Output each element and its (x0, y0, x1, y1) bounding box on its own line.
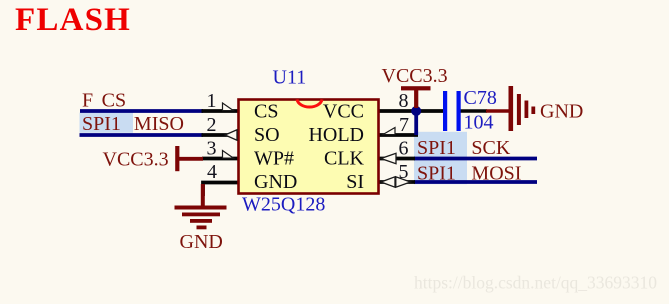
IC notch arc (297, 100, 322, 108)
svg-text:GND: GND (540, 101, 583, 123)
pin 5 bidirectional arrows (381, 177, 411, 187)
svg-text:8: 8 (399, 90, 409, 112)
svg-text:6: 6 (399, 138, 409, 160)
highlight box nets SPI1_SCK / SPI1_MOSI (414, 132, 467, 184)
pin 6 wire (378, 157, 415, 161)
pin 1 wire (202, 109, 239, 113)
wire VCC net vertical to pin 7 (414, 111, 418, 135)
svg-text:VCC: VCC (323, 101, 364, 123)
pin 6 input arrow (381, 153, 396, 163)
wire net SPI1_MOSI (414, 180, 537, 184)
pin 7 input arrow (383, 128, 395, 135)
svg-text:GND: GND (180, 231, 223, 253)
pin 2 wire (202, 133, 239, 137)
capacitor C78 plates (443, 91, 461, 131)
svg-text:HOLD: HOLD (308, 124, 364, 146)
svg-text:SPI1MISO: SPI1MISO (82, 113, 184, 135)
svg-text:CLK: CLK (324, 148, 365, 170)
svg-text:WP#: WP# (254, 148, 294, 170)
pin 8 wire to capacitor (378, 109, 444, 113)
svg-text:CS: CS (254, 101, 278, 123)
junction dot (411, 106, 421, 116)
svg-text:1: 1 (207, 90, 217, 112)
pin 1 input arrow (223, 103, 234, 111)
pin 2 output arrow (225, 130, 237, 140)
svg-text:2: 2 (207, 114, 217, 136)
svg-text:GND: GND (254, 171, 297, 193)
ground symbol (right of C78) (486, 86, 535, 131)
IC U11 body (239, 100, 379, 194)
svg-text:FLASH: FLASH (15, 2, 131, 38)
svg-text:https://blog.csdn.net/qq_33693: https://blog.csdn.net/qq_33693310 (414, 273, 657, 293)
svg-text:7: 7 (399, 114, 409, 136)
svg-text:SI: SI (346, 171, 364, 193)
svg-text:VCC3.3: VCC3.3 (103, 149, 169, 171)
wire capacitor to GND (460, 109, 487, 113)
highlight box net SPI1_MISO (80, 113, 134, 133)
svg-text:C78: C78 (464, 87, 497, 109)
pin 7 wire (378, 133, 418, 137)
wire net SPI1_MISO (80, 133, 204, 137)
svg-text:4: 4 (207, 161, 217, 183)
pin 5 wire (378, 180, 415, 184)
ground symbol (bottom) (175, 184, 227, 229)
svg-text:SO: SO (254, 124, 280, 146)
svg-text:W25Q128: W25Q128 (242, 194, 325, 216)
svg-text:VCC3.3: VCC3.3 (382, 65, 448, 87)
svg-text:104: 104 (464, 112, 494, 134)
power symbol VCC3.3 (left) (175, 146, 203, 171)
wire net SPI1_SCK (414, 157, 537, 161)
wire net F_CS (80, 109, 203, 113)
svg-text:FCS: FCS (82, 89, 126, 111)
power symbol VCC3.3 (top right) (401, 86, 431, 108)
pin 4 wire (203, 183, 238, 197)
svg-text:U11: U11 (273, 67, 307, 89)
pin 3 wire (202, 157, 238, 161)
pin 3 input arrow (223, 151, 234, 159)
svg-text:3: 3 (207, 138, 217, 160)
